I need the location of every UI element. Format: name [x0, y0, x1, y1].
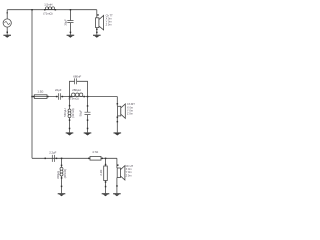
resistor R1 box — [34, 95, 47, 99]
wire bus vertical — [31, 10, 33, 159]
wire speaker D1 drop — [96, 10, 98, 35]
wire shunt cap C1 branch — [69, 10, 71, 35]
ground under C4 — [84, 132, 92, 135]
capacitor C5 plates — [52, 155, 54, 162]
pin dot D2 ground lead — [117, 121, 119, 123]
pin dot D1 plus — [97, 14, 99, 16]
capacitor C1 plates — [67, 21, 73, 23]
pin dot D3 ground lead — [116, 185, 118, 187]
ground under V1 — [3, 35, 11, 38]
source V1 arrow — [6, 12, 8, 15]
svg-text:280µH: 280µH — [72, 88, 80, 92]
svg-text:680nF: 680nF — [73, 74, 81, 78]
svg-text:Z 0m: Z 0m — [106, 23, 112, 27]
speaker D2 body — [118, 104, 126, 118]
capacitor C2 plates — [59, 93, 61, 100]
svg-text:540µH: 540µH — [63, 108, 67, 116]
pin dot D1 ground lead — [96, 32, 98, 33]
svg-text:(41mΩ): (41mΩ) — [71, 108, 75, 117]
pin dot D2 minus — [117, 117, 119, 119]
pin dot R3 bottom — [105, 181, 107, 183]
pin dot L3 bottom — [69, 119, 71, 121]
junction C1 branch — [70, 9, 72, 11]
speaker D3 body — [117, 166, 125, 180]
resistor R3 box — [104, 166, 108, 181]
pin dot L1 right — [55, 9, 57, 11]
svg-text:2.2Ω: 2.2Ω — [99, 170, 103, 176]
pin dot L1 left — [44, 9, 46, 11]
pin dot L4 ground lead — [61, 186, 63, 188]
wire speaker D2 drop — [116, 97, 118, 133]
pin dot D3 plus — [117, 164, 119, 166]
wire branch R3 — [105, 158, 107, 193]
wire speaker D3 drop — [116, 158, 118, 193]
svg-text:22µF: 22µF — [55, 88, 62, 92]
pin dot L3 ground lead — [69, 128, 71, 130]
svg-text:1.5mH: 1.5mH — [44, 2, 52, 6]
ground under L4 — [58, 193, 66, 196]
pin dot L2 right — [83, 96, 85, 98]
pin dot L4 bottom — [61, 177, 63, 179]
pin dot R2 right — [102, 158, 104, 160]
svg-text:30µF: 30µF — [64, 19, 68, 26]
ground under L3 — [66, 132, 74, 135]
inductor L1 coil — [46, 7, 55, 10]
pin dot C2 right — [62, 96, 64, 98]
ground under R3 — [102, 193, 110, 196]
svg-text:330µH: 330µH — [56, 171, 60, 179]
node A dot — [69, 96, 71, 98]
junction R3 branch — [105, 158, 107, 160]
capacitor C3 plates — [75, 78, 77, 84]
svg-text:4.7Ω: 4.7Ω — [92, 150, 98, 154]
svg-text:2.2µF: 2.2µF — [49, 151, 56, 155]
svg-text:(0.9mΩ): (0.9mΩ) — [69, 96, 79, 100]
ground under D3 — [113, 193, 121, 196]
source V1 lead bottom — [6, 27, 8, 35]
wire top horizontal — [7, 9, 97, 11]
wire mid row — [32, 96, 117, 98]
wire LC branch loop — [70, 81, 88, 96]
pin dot C2 left — [56, 96, 58, 98]
inductor L4 coil — [60, 167, 63, 176]
ground under C1 — [67, 35, 75, 38]
pin dot C4 top — [87, 105, 89, 107]
wire branch L4 — [61, 158, 63, 193]
source V1 circle — [3, 19, 11, 27]
wire branch L3 — [69, 97, 71, 133]
svg-text:1.5Ω: 1.5Ω — [37, 90, 43, 94]
pin dot C5 left — [45, 158, 47, 160]
junction bus mid — [31, 96, 33, 98]
pin dot R3 top — [105, 164, 107, 166]
svg-text:56µF: 56µF — [78, 110, 82, 117]
capacitor C4 plates — [85, 112, 91, 114]
svg-text:Z 0m: Z 0m — [127, 112, 133, 116]
pin dot L3 top — [69, 105, 71, 107]
inductor L2 coil — [72, 93, 83, 96]
pin dot R1 left — [33, 96, 35, 98]
pin dot R2 left — [88, 158, 90, 160]
pin dot L4 top — [61, 165, 63, 167]
pin dot C1 bottom — [70, 32, 72, 33]
speaker D1 body — [96, 15, 104, 30]
source V1 lead top — [6, 10, 8, 19]
pin dot D2 plus — [117, 103, 119, 105]
ground under D1 — [93, 35, 101, 38]
pin dot L2 left — [70, 96, 72, 98]
junction bus top — [31, 9, 33, 11]
wire branch C4 — [87, 97, 89, 133]
junction L4 branch — [61, 158, 63, 160]
resistor R2 box — [90, 157, 101, 161]
source V1 sine — [5, 22, 10, 25]
inductor L3 coil — [68, 109, 71, 118]
node B dot — [87, 96, 89, 98]
pin dot R1 right — [47, 96, 49, 98]
pin dot V1 bottom — [7, 32, 9, 34]
pin dot C4 ground lead — [87, 128, 89, 130]
svg-text:(71mΩ): (71mΩ) — [43, 11, 52, 15]
svg-text:(28mΩ): (28mΩ) — [63, 169, 67, 178]
pin dot R3 ground lead — [105, 186, 107, 188]
wire bottom horizontal — [32, 157, 117, 159]
pin dot C5 right — [56, 158, 58, 160]
svg-text:Z 0m: Z 0m — [126, 173, 132, 177]
pin dot D1 minus — [96, 29, 98, 31]
pin dot C4 bottom — [87, 119, 89, 121]
ground under D2 — [114, 132, 122, 135]
